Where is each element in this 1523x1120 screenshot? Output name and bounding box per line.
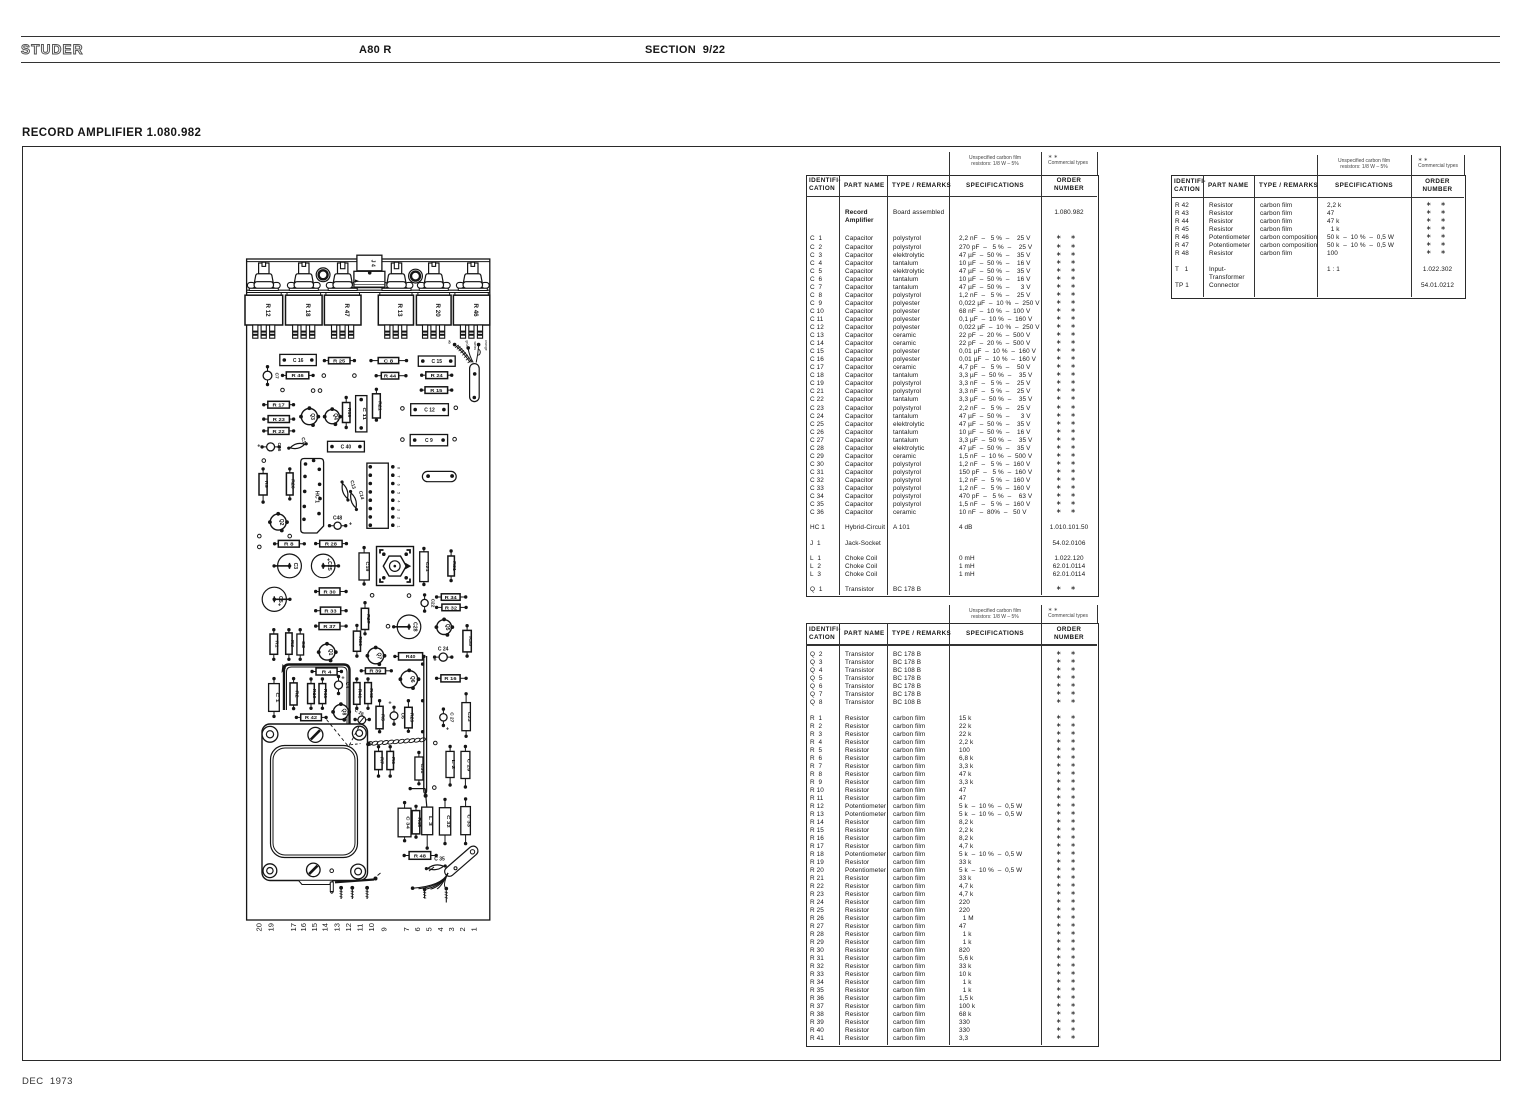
capacitor C17 [287, 441, 309, 451]
transistor Q3 [299, 406, 320, 427]
svg-text:R10: R10 [312, 689, 317, 699]
svg-text:grün: grün [465, 341, 469, 348]
svg-text:C 8: C 8 [384, 358, 394, 363]
svg-text:Q8: Q8 [341, 709, 347, 716]
svg-text:L 2: L 2 [450, 760, 456, 770]
potentiometer R46 bushing [456, 262, 489, 290]
capacitor C33 [461, 797, 472, 845]
capacitor C12 [411, 404, 449, 416]
svg-text:C 29: C 29 [465, 759, 471, 772]
svg-text:R1: R1 [275, 641, 280, 649]
capacitor C23 [462, 692, 472, 738]
svg-text:C13: C13 [348, 480, 356, 490]
potentiometer R18 bushing [287, 262, 320, 290]
svg-text:C 15: C 15 [432, 359, 443, 365]
svg-text:C21: C21 [424, 562, 430, 572]
svg-text:Q7: Q7 [376, 652, 382, 659]
resistor R34 [435, 594, 468, 601]
svg-text:6: 6 [397, 484, 401, 486]
shield bottom tab [299, 881, 333, 885]
svg-text:R 39: R 39 [369, 669, 382, 674]
mounting-bracket strip [247, 290, 490, 292]
resistor R9 [259, 467, 269, 504]
svg-text:R 37: R 37 [323, 624, 336, 629]
shield small hole [330, 869, 334, 873]
svg-text:+: + [446, 726, 449, 732]
jumper link [422, 471, 456, 481]
via row b [401, 407, 405, 411]
capacitor C48 [328, 516, 352, 530]
svg-text:5: 5 [424, 927, 433, 931]
potentiometer R12 bushing [247, 262, 280, 290]
svg-text:3: 3 [447, 927, 456, 931]
capacitor C11 [356, 396, 368, 432]
svg-text:R36: R36 [358, 636, 363, 646]
svg-text:R 30: R 30 [324, 589, 337, 594]
shield slotted screw bottom [307, 863, 321, 877]
svg-text:14: 14 [321, 923, 330, 931]
svg-text:C36: C36 [276, 442, 282, 451]
svg-text:9: 9 [379, 927, 388, 931]
svg-text:C23: C23 [466, 712, 472, 722]
svg-text:R 44: R 44 [384, 374, 397, 379]
svg-text:L 3: L 3 [427, 816, 433, 826]
resistor R31 [448, 549, 457, 582]
svg-text:7: 7 [402, 927, 411, 931]
svg-text:4: 4 [397, 500, 401, 502]
resistor R36 [353, 624, 362, 658]
svg-text:12: 12 [344, 923, 353, 931]
svg-text:C2: C2 [300, 641, 306, 649]
svg-text:R 4: R 4 [322, 669, 332, 674]
capacitor C31 [415, 751, 425, 786]
svg-text:C 16: C 16 [293, 358, 304, 364]
svg-text:R40: R40 [406, 654, 416, 659]
capacitor C32 [439, 798, 451, 846]
svg-text:C 11: C 11 [361, 407, 367, 420]
svg-text:+: + [327, 557, 330, 563]
svg-text:C 35: C 35 [434, 857, 445, 863]
shield ground wires [335, 873, 381, 899]
transistor Q4 [323, 407, 342, 426]
resistor R40 [393, 653, 425, 660]
dashed sight lines [327, 720, 361, 747]
transistor Q8 [331, 702, 351, 722]
svg-text:C19: C19 [364, 562, 370, 572]
svg-text:3: 3 [397, 509, 401, 511]
output cable sleeve [443, 844, 480, 878]
svg-text:17: 17 [289, 923, 298, 931]
svg-text:+: + [257, 443, 260, 449]
svg-text:C22: C22 [430, 599, 436, 608]
PCB board outline [247, 259, 490, 920]
twisted wire pair [366, 737, 426, 746]
svg-text:10: 10 [367, 923, 376, 931]
svg-text:R 33: R 33 [324, 609, 337, 614]
svg-text:C 27: C 27 [449, 712, 455, 722]
resistor R44 [375, 372, 408, 379]
resistor R41 [354, 677, 363, 710]
transistor Q7 [366, 646, 387, 667]
svg-text:C 12: C 12 [424, 408, 435, 414]
svg-text:5: 5 [397, 492, 401, 494]
shield screw bottom-left [263, 864, 277, 878]
potentiometer R20 body [416, 293, 451, 339]
via d [262, 459, 266, 463]
svg-text:+: + [341, 675, 344, 681]
transistor Q5 [435, 618, 455, 637]
svg-text:R 48: R 48 [414, 853, 427, 858]
wire L3 junction [409, 787, 428, 807]
svg-text:16: 16 [299, 923, 308, 931]
svg-text:R 17: R 17 [273, 403, 286, 408]
capacitor C22 [421, 593, 436, 613]
resistor R11 [319, 677, 328, 710]
svg-text:1: 1 [469, 927, 478, 931]
resistor R7 [375, 745, 385, 778]
svg-text:+: + [388, 700, 391, 706]
capacitor C2 [297, 628, 306, 661]
resistor R28 [314, 540, 348, 547]
svg-text:C 1: C 1 [274, 693, 280, 703]
potentiometer R13 bushing [380, 262, 413, 290]
cable sleeve holes [470, 850, 474, 854]
resistor R22 [262, 428, 295, 435]
transistor Q2 [268, 512, 289, 532]
potentiometer R47 body [324, 293, 361, 339]
resistor R37 [314, 623, 348, 630]
capacitor C6 [388, 700, 405, 726]
capacitor C19 [359, 546, 370, 586]
svg-text:HC 1: HC 1 [314, 491, 320, 503]
input transformer T1 shield can [262, 724, 368, 881]
resistor R29 [405, 699, 415, 733]
svg-text:C4: C4 [344, 682, 350, 688]
svg-text:1: 1 [397, 525, 401, 527]
svg-text:Q1: Q1 [327, 649, 333, 656]
potentiometer R18 body [286, 293, 323, 339]
washer hole B [409, 269, 423, 283]
svg-text:C 24: C 24 [438, 647, 449, 653]
svg-text:R41: R41 [358, 689, 363, 699]
edge connector pin numbers [255, 923, 479, 931]
capacitor C1 [269, 677, 280, 718]
potentiometer R47 bushing [326, 262, 359, 290]
svg-text:weiss: weiss [473, 342, 477, 351]
hybrid circuit HC1 [301, 459, 324, 534]
resistor R30 [314, 588, 348, 595]
svg-text:C14: C14 [357, 490, 365, 500]
resistor R42 [295, 714, 328, 721]
svg-text:C28: C28 [412, 622, 418, 632]
svg-text:15: 15 [310, 923, 319, 931]
shield slotted screw top [308, 727, 323, 742]
resistor R39 [360, 668, 393, 674]
washer hole A [316, 268, 330, 282]
svg-text:R 18: R 18 [304, 304, 311, 318]
svg-text:R6: R6 [391, 757, 396, 765]
resistor R19 [343, 396, 353, 429]
svg-text:R3: R3 [290, 640, 295, 648]
svg-text:7: 7 [397, 475, 401, 477]
potentiometer R12 body [245, 293, 283, 339]
svg-text:2: 2 [397, 517, 401, 519]
svg-text:+: + [349, 522, 352, 528]
svg-text:R 46: R 46 [472, 304, 479, 318]
svg-text:C31: C31 [419, 764, 425, 774]
svg-text:R 24: R 24 [431, 373, 444, 378]
svg-text:R 42: R 42 [305, 715, 318, 720]
svg-text:C7: C7 [273, 373, 279, 379]
svg-text:R 46: R 46 [292, 373, 305, 378]
via row a [281, 388, 285, 392]
capacitor C13 [339, 480, 350, 503]
capacitor C4 [335, 675, 350, 695]
capacitor C36 [257, 442, 282, 451]
trimmer capacitor C26 [353, 708, 371, 724]
via h [433, 786, 437, 790]
svg-text:Q2: Q2 [278, 519, 284, 526]
ground trace loop [282, 664, 350, 724]
capacitor C16 [280, 354, 317, 365]
svg-text:R35: R35 [468, 636, 473, 646]
capacitor C24 [433, 647, 454, 664]
svg-text:R 15: R 15 [430, 388, 443, 393]
svg-text:4: 4 [436, 927, 445, 931]
wire sleeve W1 [470, 364, 480, 402]
capacitor C27 [440, 707, 455, 732]
resistor R25 [323, 358, 356, 364]
svg-text:20: 20 [255, 923, 264, 931]
svg-text:C 26: C 26 [354, 708, 365, 717]
choke coil L3 [422, 807, 433, 850]
trimmer capacitor C18 [377, 547, 414, 586]
svg-text:R29: R29 [409, 713, 414, 723]
jack-socket J4 [354, 255, 385, 287]
svg-text:Q3: Q3 [309, 413, 315, 420]
capacitor C3 [272, 554, 301, 578]
cable wire fan [411, 867, 448, 903]
svg-text:Q4: Q4 [332, 413, 338, 420]
resistor R27 [361, 601, 371, 636]
integrated circuit IC1 (DIP-16) [367, 463, 401, 528]
resistor R15 [420, 387, 454, 394]
resistor R5 [376, 699, 385, 733]
svg-text:R21: R21 [377, 401, 382, 411]
resistor R16 [435, 675, 468, 682]
svg-text:19: 19 [266, 923, 275, 931]
svg-text:R5: R5 [380, 714, 385, 722]
resistor R6 [387, 745, 396, 778]
svg-text:C 9: C 9 [425, 438, 433, 444]
svg-text:R 23: R 23 [273, 417, 286, 422]
svg-text:C48: C48 [333, 516, 342, 522]
potentiometer R20 bushing [417, 262, 450, 290]
svg-text:R 28: R 28 [325, 542, 338, 547]
svg-text:R 16: R 16 [444, 676, 457, 681]
resistor R2 [290, 677, 299, 710]
choke coil L2 [446, 745, 456, 787]
shield screw top-left [262, 726, 278, 742]
resistor R10 [308, 677, 317, 710]
capacitor C29 [461, 745, 471, 789]
resistor R1 [270, 628, 280, 661]
transistor Q1 [317, 642, 338, 663]
shield screw bottom-right [351, 864, 366, 879]
resistor R3 [286, 628, 295, 661]
svg-text:8: 8 [397, 467, 401, 469]
svg-text:R 34: R 34 [445, 595, 458, 600]
svg-text:R2: R2 [294, 690, 299, 698]
svg-text:6: 6 [413, 927, 422, 931]
svg-text:R 47: R 47 [343, 304, 350, 318]
svg-text:3: 3 [448, 340, 451, 346]
svg-text:R43: R43 [369, 688, 374, 698]
resistor R45 [412, 805, 422, 839]
capacitor C8 [369, 358, 408, 364]
svg-text:R9: R9 [264, 481, 269, 489]
capacitor C7 [263, 365, 279, 386]
svg-text:R 22: R 22 [273, 429, 286, 434]
svg-text:11: 11 [355, 924, 364, 932]
svg-text:R27: R27 [366, 614, 371, 624]
svg-text:C 40: C 40 [341, 445, 352, 451]
svg-text:2: 2 [458, 927, 467, 931]
resistor R4 [310, 668, 343, 675]
via g [386, 624, 390, 628]
svg-text:R7: R7 [379, 757, 384, 765]
svg-text:R 12: R 12 [264, 304, 271, 318]
resistor R46 trim lead [281, 372, 315, 379]
shield screw top-right [352, 726, 366, 740]
capacitor C34 [398, 801, 411, 843]
wire harness W1 to pin 3 [448, 340, 488, 363]
resistor R33 [314, 607, 348, 614]
svg-text:R 13: R 13 [396, 304, 403, 318]
svg-text:C 33: C 33 [466, 814, 472, 827]
svg-text:+: + [433, 658, 436, 664]
svg-text:+: + [278, 602, 281, 608]
resistor R26 [286, 467, 295, 500]
svg-text:Q6: Q6 [409, 676, 415, 683]
svg-text:R 8: R 8 [284, 542, 294, 547]
via row c [401, 438, 405, 442]
via row e [258, 534, 262, 538]
capacitor C15 [418, 356, 455, 366]
svg-text:R31: R31 [452, 561, 457, 571]
svg-text:J 4: J 4 [370, 260, 376, 267]
resistor R21 [373, 388, 383, 422]
capacitor C28 [392, 615, 421, 639]
capacitor C40 [328, 441, 365, 452]
capacitor C25 [311, 554, 340, 578]
svg-text:C3: C3 [292, 563, 298, 570]
svg-text:R26: R26 [291, 479, 296, 489]
resistor R32 [435, 604, 468, 611]
potentiometer R13 body [378, 293, 413, 339]
resistor R8 [273, 540, 306, 547]
svg-text:C 32: C 32 [445, 815, 451, 828]
via row f [370, 594, 374, 598]
potentiometer R46 body [453, 293, 489, 339]
capacitor C35 [424, 863, 447, 871]
svg-text:R11: R11 [323, 689, 328, 699]
svg-text:orange: orange [484, 340, 488, 351]
resistor R17 [262, 401, 295, 408]
svg-text:R19: R19 [347, 408, 352, 418]
svg-text:Q5: Q5 [444, 624, 450, 631]
svg-text:R 20: R 20 [434, 304, 441, 318]
svg-text:13: 13 [333, 923, 342, 931]
resistor R48 [403, 852, 438, 860]
capacitor C14 [348, 489, 359, 512]
resistor R24 [420, 372, 453, 379]
resistor R35 [463, 624, 473, 658]
svg-text:C 34: C 34 [404, 816, 410, 829]
svg-text:R 32: R 32 [445, 605, 458, 610]
transistor Q6 [399, 669, 421, 690]
solder pin [330, 882, 333, 893]
capacitor C21 [420, 547, 430, 586]
capacitor C9 [410, 435, 447, 446]
resistor R23 [262, 416, 295, 423]
wire vertical bus [421, 656, 427, 793]
resistor R43 [365, 677, 374, 710]
capacitor C5 [262, 587, 291, 611]
svg-text:R 25: R 25 [333, 359, 346, 364]
